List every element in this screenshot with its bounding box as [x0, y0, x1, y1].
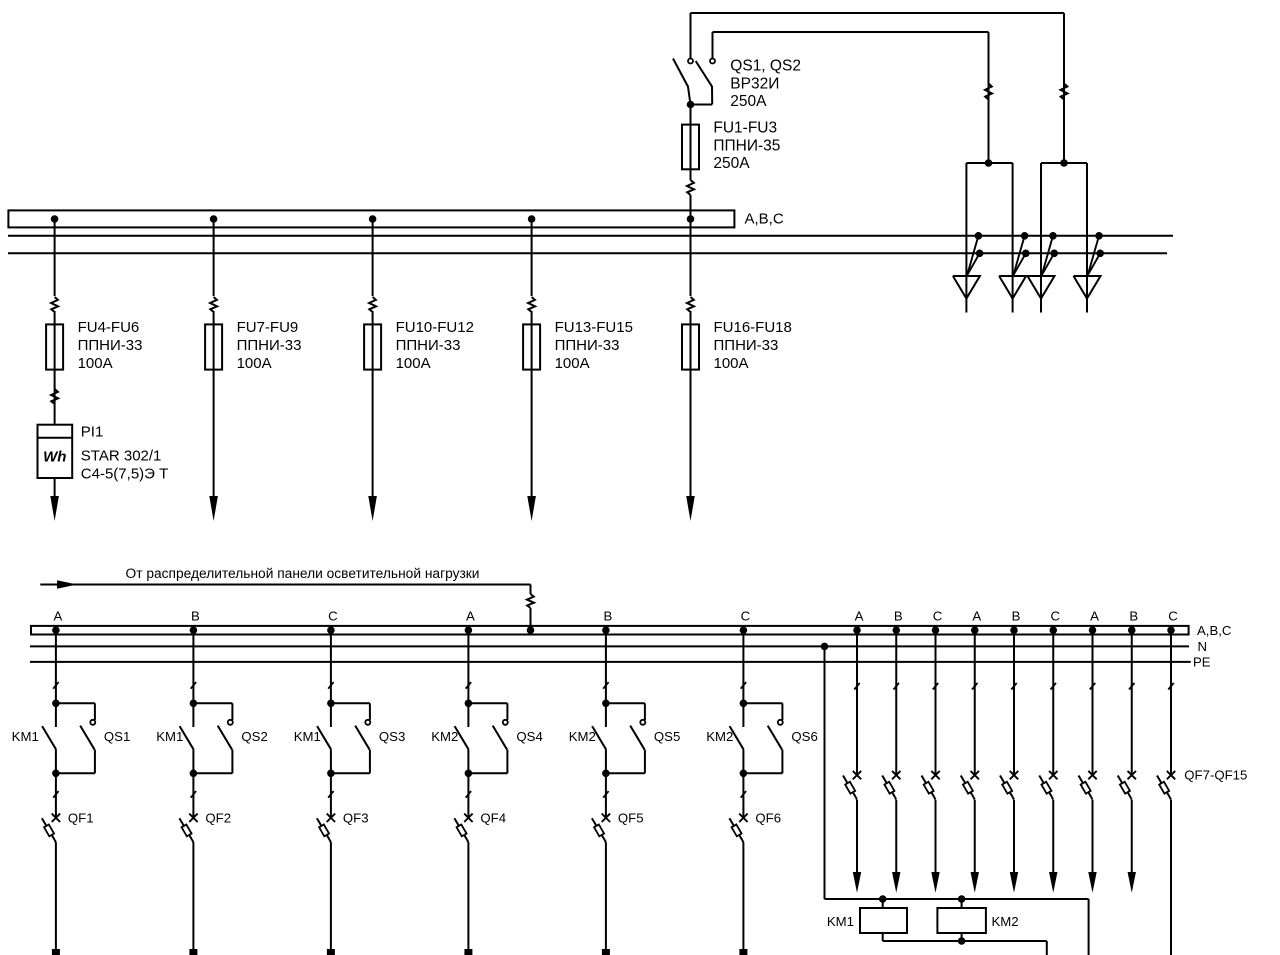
svg-text:От распределительной панели ос: От распределительной панели осветительно… [126, 566, 480, 581]
svg-text:C: C [933, 609, 943, 624]
svg-text:B: B [1129, 609, 1138, 624]
svg-text:ППНИ-35: ППНИ-35 [713, 137, 780, 154]
svg-text:KM1: KM1 [827, 914, 854, 929]
svg-text:ППНИ-33: ППНИ-33 [396, 337, 461, 354]
svg-text:ППНИ-33: ППНИ-33 [78, 337, 143, 354]
svg-text:STAR 302/1: STAR 302/1 [81, 448, 162, 465]
svg-text:FU1-FU3: FU1-FU3 [713, 120, 777, 137]
svg-text:100А: 100А [237, 355, 272, 372]
svg-text:100А: 100А [396, 355, 431, 372]
svg-text:N: N [1198, 639, 1208, 654]
svg-text:FU7-FU9: FU7-FU9 [237, 319, 299, 336]
svg-text:QS2: QS2 [241, 729, 267, 744]
svg-text:ППНИ-33: ППНИ-33 [714, 337, 779, 354]
svg-text:B: B [191, 609, 200, 624]
svg-text:KM2: KM2 [431, 729, 458, 744]
svg-text:C: C [1168, 609, 1178, 624]
svg-text:A,B,C: A,B,C [745, 210, 784, 227]
svg-text:QF3: QF3 [343, 810, 369, 825]
svg-text:250А: 250А [713, 155, 750, 172]
svg-text:ВР32И: ВР32И [730, 75, 779, 92]
svg-text:QF1: QF1 [68, 810, 94, 825]
svg-text:QS5: QS5 [654, 729, 680, 744]
svg-text:100А: 100А [555, 355, 590, 372]
svg-text:QS4: QS4 [516, 729, 542, 744]
svg-text:FU16-FU18: FU16-FU18 [714, 319, 792, 336]
svg-text:100А: 100А [714, 355, 749, 372]
svg-text:KM1: KM1 [294, 729, 321, 744]
svg-text:QF6: QF6 [755, 810, 781, 825]
svg-text:C: C [741, 609, 751, 624]
svg-text:KM1: KM1 [12, 729, 39, 744]
svg-text:QF2: QF2 [205, 810, 231, 825]
svg-text:FU10-FU12: FU10-FU12 [396, 319, 474, 336]
svg-text:QF5: QF5 [618, 810, 644, 825]
svg-text:A: A [855, 609, 864, 624]
svg-text:KM2: KM2 [569, 729, 596, 744]
svg-text:C: C [1050, 609, 1060, 624]
svg-text:QF7-QF15: QF7-QF15 [1184, 768, 1247, 783]
svg-text:С4-5(7,5)Э Т: С4-5(7,5)Э Т [81, 465, 168, 482]
svg-text:KM2: KM2 [992, 914, 1019, 929]
svg-text:KM1: KM1 [156, 729, 183, 744]
svg-text:QS3: QS3 [379, 729, 405, 744]
svg-text:QS1, QS2: QS1, QS2 [730, 58, 801, 75]
svg-text:A: A [972, 609, 981, 624]
svg-text:ППНИ-33: ППНИ-33 [237, 337, 302, 354]
svg-text:QS1: QS1 [104, 729, 130, 744]
svg-text:250А: 250А [730, 93, 767, 110]
svg-text:Wh: Wh [43, 448, 66, 465]
svg-text:100А: 100А [78, 355, 113, 372]
svg-text:A: A [1090, 609, 1099, 624]
svg-text:B: B [1012, 609, 1021, 624]
svg-text:C: C [328, 609, 338, 624]
svg-text:FU13-FU15: FU13-FU15 [555, 319, 633, 336]
svg-text:B: B [604, 609, 613, 624]
svg-text:B: B [894, 609, 903, 624]
svg-text:PE: PE [1193, 655, 1211, 670]
svg-text:QS6: QS6 [791, 729, 817, 744]
svg-text:FU4-FU6: FU4-FU6 [78, 319, 140, 336]
svg-text:A: A [54, 609, 63, 624]
svg-text:KM2: KM2 [706, 729, 733, 744]
svg-text:QF4: QF4 [480, 810, 506, 825]
svg-text:A,B,C: A,B,C [1197, 623, 1232, 638]
svg-text:A: A [466, 609, 475, 624]
svg-text:ППНИ-33: ППНИ-33 [555, 337, 620, 354]
svg-text:PI1: PI1 [81, 424, 104, 441]
